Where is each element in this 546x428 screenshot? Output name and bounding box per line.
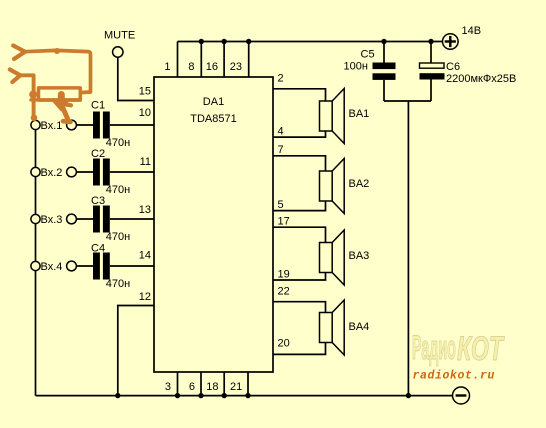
svg-text:TDA8571: TDA8571 [190,113,236,125]
svg-text:22: 22 [278,286,290,298]
svg-text:14В: 14В [462,25,482,37]
svg-text:DA1: DA1 [203,96,224,108]
svg-text:3: 3 [165,381,171,393]
svg-text:14: 14 [139,250,151,262]
svg-text:10: 10 [139,107,151,119]
svg-text:6: 6 [189,381,195,393]
svg-text:100н: 100н [344,61,368,73]
svg-text:Вх.1: Вх.1 [41,120,63,132]
svg-text:1: 1 [164,61,170,73]
svg-text:11: 11 [140,156,151,168]
svg-text:C5: C5 [361,49,375,61]
svg-text:Вх.2: Вх.2 [41,167,63,179]
svg-text:C3: C3 [91,195,105,207]
svg-text:2200мкФх25В: 2200мкФх25В [446,73,516,85]
svg-text:470н: 470н [106,137,130,149]
svg-text:470н: 470н [106,184,130,196]
svg-text:C1: C1 [91,100,105,112]
svg-text:4: 4 [278,126,284,138]
svg-text:Радио: Радио [412,328,456,367]
svg-text:17: 17 [278,216,290,228]
svg-text:16: 16 [206,61,218,73]
svg-text:23: 23 [230,61,242,73]
svg-text:Вх.4: Вх.4 [41,261,63,273]
svg-text:7: 7 [278,144,284,156]
svg-text:20: 20 [278,338,290,350]
svg-text:5: 5 [278,199,284,211]
svg-text:MUTE: MUTE [104,30,135,42]
svg-text:Вх.3: Вх.3 [41,214,63,226]
svg-text:BA4: BA4 [349,321,370,333]
svg-text:470н: 470н [106,278,130,290]
svg-text:15: 15 [139,86,151,98]
svg-text:19: 19 [278,269,290,281]
svg-text:2: 2 [278,73,284,85]
svg-text:BA3: BA3 [349,250,370,262]
svg-text:470н: 470н [106,231,130,243]
svg-text:КОТ: КОТ [457,331,505,368]
svg-text:13: 13 [139,204,151,216]
svg-text:C2: C2 [91,148,105,160]
svg-text:8: 8 [188,61,194,73]
svg-text:C6: C6 [446,61,460,73]
svg-text:BA1: BA1 [349,108,370,120]
svg-text:18: 18 [206,381,218,393]
svg-text:12: 12 [139,291,151,303]
svg-text:radiokot.ru: radiokot.ru [413,370,496,383]
svg-text:21: 21 [230,381,242,393]
svg-text:BA2: BA2 [349,178,370,190]
svg-text:C4: C4 [91,243,105,255]
